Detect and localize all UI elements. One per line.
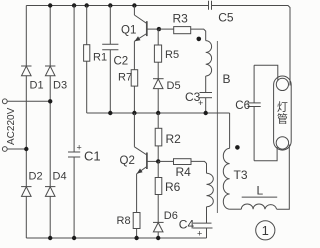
wire left column upper (D1 branch) bbox=[25, 6, 27, 67]
svg-text:1: 1 bbox=[262, 223, 269, 238]
wire R1 bottom lead to bus bbox=[86, 61, 88, 113]
inductor T3 secondary winding bbox=[223, 148, 229, 209]
node top rail R1 bbox=[85, 3, 89, 7]
label lamp 灯管 bbox=[277, 101, 288, 126]
wire R6 top lead bbox=[157, 161, 159, 177]
svg-text:R4: R4 bbox=[176, 165, 192, 179]
capacitor C1 bbox=[68, 152, 80, 157]
wire winding B to C3 bbox=[205, 76, 207, 93]
svg-text:C2: C2 bbox=[114, 55, 129, 67]
wire bus to winding T3b bbox=[229, 113, 231, 148]
svg-text:L: L bbox=[257, 184, 264, 198]
resistor R5 bbox=[154, 45, 161, 62]
svg-text:灯: 灯 bbox=[277, 101, 288, 114]
wire top rail right segment bbox=[212, 6, 291, 86]
capacitor C4 bbox=[193, 223, 213, 228]
svg-text:+: + bbox=[197, 228, 202, 238]
svg-text:B: B bbox=[223, 72, 231, 86]
wire R1 top lead bbox=[86, 6, 88, 45]
svg-text:Q2: Q2 bbox=[120, 155, 135, 167]
inductor T3 primary winding bbox=[207, 173, 214, 207]
transistor Q1 bbox=[134, 6, 146, 42]
wire top rail left segment bbox=[26, 5, 208, 7]
svg-text:D1: D1 bbox=[30, 80, 44, 92]
svg-text:D3: D3 bbox=[53, 80, 67, 92]
wire winding T3a to C4 bbox=[206, 207, 208, 224]
symbol figure number circle bbox=[256, 221, 275, 240]
svg-text:D5: D5 bbox=[167, 80, 181, 92]
svg-text:R2: R2 bbox=[166, 132, 182, 146]
lamp bottom filament bbox=[276, 137, 288, 149]
lamp tube body bbox=[274, 76, 292, 150]
svg-text:D2: D2 bbox=[29, 171, 43, 183]
svg-text:D6: D6 bbox=[164, 210, 178, 222]
wire winding T3b to L bbox=[230, 208, 242, 210]
transistor Q2 bbox=[134, 113, 147, 174]
wire Q1 emitter to R7 bbox=[133, 41, 135, 69]
wire column D3/D4 middle bbox=[49, 76, 51, 187]
svg-text:C5: C5 bbox=[218, 11, 234, 25]
label L underline bbox=[242, 196, 278, 198]
wire R4 right lead to winding T3a bbox=[191, 161, 207, 173]
wire Q2 emitter to R8 bbox=[136, 174, 138, 213]
svg-text:R8: R8 bbox=[117, 215, 131, 227]
node bottom rail D6 bbox=[156, 236, 160, 240]
capacitor C5 bbox=[209, 1, 212, 10]
wire R5 top lead bbox=[157, 29, 159, 45]
wire column D3/D4 upper bbox=[49, 6, 51, 67]
resistor R1 bbox=[84, 45, 90, 62]
resistor R8 bbox=[133, 213, 140, 229]
svg-text:R7: R7 bbox=[118, 72, 132, 84]
node top rail C2 bbox=[108, 3, 112, 7]
svg-text:C6: C6 bbox=[235, 100, 250, 112]
node bus C2 bbox=[108, 111, 112, 115]
wire C2 top lead bbox=[109, 6, 111, 45]
lamp top filament bbox=[276, 78, 288, 90]
node top rail Q1 collector bbox=[132, 3, 136, 7]
wire C6 bottom lead bbox=[253, 107, 255, 161]
terminal AC neutral bbox=[2, 147, 7, 152]
wire L to lamp bottom right bbox=[277, 145, 290, 210]
capacitor C2 bbox=[102, 44, 118, 50]
svg-text:C1: C1 bbox=[84, 149, 101, 164]
node winding B polarity dot bbox=[197, 37, 202, 42]
node bus Q1 emitter / Q2 collector bbox=[132, 111, 136, 115]
wire C1 column upper bbox=[73, 6, 75, 153]
node bottom rail C1 bbox=[72, 236, 76, 240]
svg-text:R3: R3 bbox=[173, 12, 189, 26]
wire R7 to bus bbox=[133, 86, 135, 113]
wire R3 right lead to winding B bbox=[191, 29, 206, 40]
svg-text:R1: R1 bbox=[93, 52, 107, 64]
resistor R2 bbox=[155, 128, 162, 146]
diode D3 bbox=[45, 66, 55, 76]
diode D4 bbox=[45, 187, 55, 197]
node bottom rail D4 bbox=[48, 236, 52, 240]
node bus C3 bbox=[204, 111, 208, 115]
wire C3 to bus bbox=[205, 98, 207, 113]
capacitor C3 bbox=[200, 93, 213, 98]
wire C6 top lead bbox=[253, 65, 255, 103]
svg-text:AC220V: AC220V bbox=[6, 107, 17, 145]
wire Q2 base bbox=[147, 160, 158, 162]
diode D2 bbox=[21, 187, 31, 197]
wire R6 to D6 bbox=[157, 195, 159, 223]
resistor R4 bbox=[174, 159, 192, 165]
node AC live junction bbox=[48, 99, 52, 103]
wire bottom rail bbox=[26, 237, 206, 239]
terminal AC live bbox=[2, 99, 7, 104]
wire AC neutral to bridge bbox=[7, 148, 26, 150]
diode D1 bbox=[21, 66, 31, 76]
wire lamp bottom left lead bbox=[254, 147, 277, 161]
wire R8 to bottom rail bbox=[136, 229, 138, 239]
wire R2 top lead bbox=[157, 113, 159, 128]
svg-text:Q1: Q1 bbox=[121, 25, 136, 37]
inductor L bbox=[241, 204, 276, 209]
node bus D5 / R2 bbox=[156, 111, 160, 115]
core line shared by B and T3 bbox=[216, 41, 218, 213]
capacitor C6 bbox=[248, 103, 261, 107]
wire column D3/D4 lower bbox=[49, 196, 51, 238]
wire Q1 base bbox=[147, 28, 159, 30]
wire left column lower to bottom rail bbox=[25, 196, 27, 238]
svg-text:+: + bbox=[198, 98, 203, 108]
wire C4 to bottom rail bbox=[206, 228, 208, 238]
wire C1 column lower bbox=[73, 157, 75, 238]
inductor winding B bbox=[206, 41, 212, 76]
wire C2 bottom lead bbox=[109, 50, 111, 113]
wire R2 bottom lead bbox=[157, 146, 159, 162]
resistor R3 bbox=[174, 27, 191, 34]
wire D6 to bottom rail bbox=[157, 232, 159, 238]
svg-text:R6: R6 bbox=[165, 180, 181, 194]
diode D5 bbox=[153, 79, 164, 89]
svg-text:T3: T3 bbox=[234, 168, 248, 182]
wire midpoint bus bbox=[87, 112, 230, 114]
resistor R6 bbox=[155, 178, 162, 195]
wire R4 left lead bbox=[158, 160, 173, 162]
node top rail D3 bbox=[48, 3, 52, 7]
svg-text:管: 管 bbox=[277, 112, 288, 126]
wire AC live to bridge bbox=[7, 100, 50, 102]
svg-text:+: + bbox=[77, 143, 82, 153]
resistor R7 bbox=[131, 70, 138, 86]
node winding T3b polarity dot bbox=[235, 145, 240, 150]
wire R3 left lead bbox=[159, 28, 174, 30]
wire left column middle bbox=[25, 76, 27, 187]
node bottom rail R8 bbox=[134, 236, 138, 240]
wire lamp top left lead bbox=[254, 65, 278, 80]
wire R5 to D5 bbox=[157, 62, 159, 78]
diode D6 bbox=[153, 222, 164, 232]
node AC neutral junction bbox=[24, 147, 28, 151]
svg-text:R5: R5 bbox=[165, 49, 179, 61]
wire D5 to bus bbox=[157, 89, 159, 113]
node Q1 base junction bbox=[157, 27, 161, 31]
node top rail C1 bbox=[72, 3, 76, 7]
node Q2 base junction bbox=[156, 159, 160, 163]
svg-text:D4: D4 bbox=[53, 171, 67, 183]
svg-text:C4: C4 bbox=[179, 217, 195, 231]
